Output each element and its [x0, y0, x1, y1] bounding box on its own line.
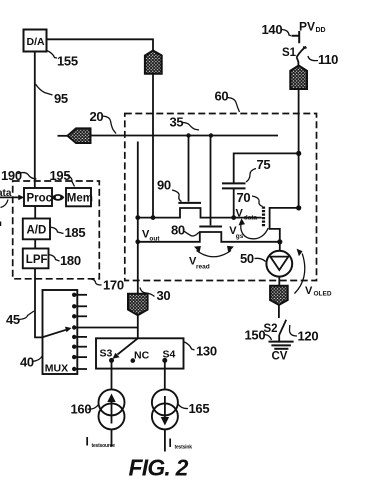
wire S4 to source 165 — [164, 360, 166, 389]
svg-text:130: 130 — [196, 344, 217, 359]
dashed controller box 190 — [13, 181, 100, 279]
Vread arc arrow (double) — [194, 246, 234, 257]
node data/W1 — [151, 215, 156, 220]
label Itestsink — [169, 436, 193, 451]
wire S1 to pad T3 — [297, 57, 299, 67]
label 160 — [71, 402, 99, 417]
svg-text:80: 80 — [171, 223, 185, 238]
pad T1 (hatched contact on D/A line) — [145, 51, 162, 74]
svg-text:40: 40 — [20, 355, 34, 370]
svg-text:Proc: Proc — [27, 193, 53, 205]
wiper arrow to S3 — [113, 338, 138, 359]
label Vout — [142, 229, 160, 243]
label 120 — [290, 325, 319, 344]
svg-text:95: 95 — [54, 91, 68, 106]
label 90 — [157, 178, 182, 202]
node Vout junction — [135, 239, 140, 244]
wire Proc to A/D — [34, 206, 36, 219]
svg-text:S3: S3 — [100, 348, 113, 360]
svg-text:30: 30 — [157, 288, 171, 303]
label 140 — [262, 22, 292, 37]
label 45 — [6, 311, 34, 327]
svg-text:165: 165 — [189, 401, 210, 416]
wire Q70 to OLED — [279, 242, 281, 251]
svg-text:NC: NC — [134, 350, 150, 362]
svg-text:90: 90 — [157, 178, 171, 193]
wire S3 to source 160 — [111, 360, 113, 389]
node Q70/Vout wire — [277, 239, 282, 244]
terminal NC — [131, 350, 150, 363]
Vgs arc arrow — [239, 218, 269, 238]
svg-text:Mem: Mem — [67, 193, 93, 205]
Q80 gate feed from line 35 — [210, 136, 212, 226]
sense line (vertical, to pad 30) — [137, 142, 139, 294]
capacitor C75 — [222, 153, 299, 217]
label 190 — [1, 168, 37, 183]
PV supply rail — [298, 89, 300, 208]
label PVdd — [299, 20, 326, 34]
selected channel wire to sense line — [74, 327, 138, 329]
label 170 — [91, 278, 124, 293]
svg-text:V: V — [305, 285, 313, 297]
label 150 — [245, 328, 272, 343]
VOLED arc arrow — [295, 249, 305, 294]
data input arrow — [0, 188, 24, 208]
OLED D50 — [266, 251, 292, 277]
node cap/W1 — [231, 215, 236, 220]
transistor Q70 gate bar (Vdata electrode) — [262, 207, 265, 228]
svg-text:190: 190 — [1, 168, 22, 183]
node on line 35 at gate feed of Q80 — [209, 133, 213, 137]
svg-text:60: 60 — [215, 89, 229, 104]
Vout wire W2 with Q80 channel bump — [138, 232, 280, 242]
terminal S3 — [100, 348, 115, 363]
label 130 — [184, 342, 217, 359]
memory box Mem — [66, 188, 93, 206]
pad 30 (hatched contact on sense line) — [128, 294, 148, 315]
stub wire left of arrow pad — [58, 135, 69, 137]
pad T3 (hatched contact under S1) — [290, 66, 307, 90]
node Q70/PV line — [296, 205, 301, 210]
svg-text:testsink: testsink — [175, 445, 193, 451]
switch S2 blade — [279, 320, 286, 335]
svg-text:180: 180 — [60, 253, 81, 268]
wire below source 160 — [111, 429, 113, 446]
switch box 130 — [96, 338, 184, 368]
label 20 — [90, 109, 117, 134]
label 75 — [246, 157, 270, 182]
label Itestsource — [86, 435, 116, 450]
svg-text:I: I — [86, 435, 89, 449]
svg-text:DD: DD — [316, 27, 326, 34]
ground CV — [269, 335, 294, 363]
D/A converter box — [24, 30, 47, 52]
wire pad 30 to switch box — [137, 315, 139, 338]
transistor Q80 gate bar — [199, 226, 222, 228]
svg-text:V: V — [236, 208, 244, 220]
label 30 — [140, 288, 170, 304]
svg-text:155: 155 — [57, 54, 78, 69]
Q90 gate lead — [188, 136, 190, 202]
MUX contact dots and stubs — [72, 293, 87, 372]
MUX select arrow — [42, 327, 72, 338]
svg-text:75: 75 — [257, 157, 271, 172]
svg-text:170: 170 — [103, 278, 124, 293]
svg-text:I: I — [169, 436, 172, 450]
svg-text:FIG. 2: FIG. 2 — [129, 455, 189, 481]
svg-text:185: 185 — [65, 225, 86, 240]
wire 95 D/A to Proc — [34, 52, 36, 189]
svg-text:gs: gs — [236, 233, 244, 240]
switch S1 blade — [297, 47, 307, 57]
svg-text:S1: S1 — [282, 47, 297, 59]
svg-text:read: read — [196, 264, 210, 271]
svg-text:70: 70 — [237, 190, 251, 205]
label Vdata — [236, 208, 258, 222]
wire OLED to pad T4 — [278, 277, 280, 286]
current source I165 — [152, 389, 178, 429]
edge mark — [0, 222, 2, 227]
label 95 — [36, 84, 68, 106]
svg-text:45: 45 — [6, 312, 20, 327]
current source I160 — [99, 389, 125, 429]
PVdd supply tick — [292, 31, 300, 43]
svg-text:OLED: OLED — [314, 291, 332, 298]
svg-text:150: 150 — [245, 328, 266, 343]
svg-text:out: out — [149, 236, 160, 243]
svg-text:CV: CV — [272, 351, 288, 363]
transistor Q70 channel step — [270, 208, 299, 242]
label 80 — [171, 223, 199, 238]
svg-text:testsource: testsource — [92, 443, 116, 449]
label 185 — [50, 225, 85, 240]
svg-text:A/D: A/D — [27, 225, 47, 237]
wire A/D to LPF — [34, 239, 36, 248]
pad T4 (hatched contact under OLED) — [270, 286, 288, 305]
svg-text:S2: S2 — [264, 323, 278, 335]
dashed pixel-circuit box 60 — [125, 114, 317, 281]
label VOLED — [305, 285, 332, 298]
svg-text:50: 50 — [240, 251, 254, 266]
svg-text:110: 110 — [318, 52, 338, 67]
label 155 — [46, 50, 78, 69]
node W1-left — [135, 215, 140, 220]
label 165 — [178, 401, 209, 416]
node on line 35 at gate of Q90 — [186, 133, 190, 137]
node cap/PV line — [296, 151, 301, 156]
label 35 — [170, 115, 200, 131]
transistor Q90 gate bar — [178, 202, 201, 204]
svg-text:PV: PV — [299, 20, 315, 34]
wire from pad T1 down to node — [152, 74, 154, 218]
svg-text:140: 140 — [262, 22, 283, 37]
terminal S4 — [162, 349, 175, 363]
svg-text:D/A: D/A — [27, 36, 46, 48]
label 60 — [215, 89, 240, 113]
label 110 — [308, 52, 338, 67]
svg-text:120: 120 — [298, 329, 319, 344]
A/D box — [23, 219, 50, 240]
svg-text:20: 20 — [90, 109, 104, 124]
label 70 — [237, 190, 263, 207]
pad T2 (left-pointing hatched contact, line 20) — [68, 128, 91, 143]
svg-text:35: 35 — [170, 115, 184, 130]
LPF box — [23, 249, 49, 269]
wire LPF down to MUX select — [35, 268, 42, 337]
label 180 — [49, 253, 81, 268]
wire below source 165 — [164, 429, 166, 451]
wire W1 with Q90 channel bump — [138, 208, 262, 218]
processor box Proc — [24, 188, 53, 206]
svg-text:MUX: MUX — [45, 363, 68, 375]
label 40 — [20, 355, 43, 370]
svg-text:data: data — [244, 215, 258, 222]
bidirectional arrow Proc-Mem — [52, 194, 65, 201]
label Vread — [189, 256, 210, 271]
svg-text:LPF: LPF — [26, 254, 48, 266]
MUX box — [43, 290, 78, 375]
label Vgs — [229, 225, 243, 240]
label 50 — [240, 251, 266, 266]
select line 35 — [91, 135, 279, 137]
label 195 — [50, 168, 75, 187]
wire pad T4 to S2 — [278, 305, 280, 318]
wire D/A output to pad — [47, 39, 154, 51]
